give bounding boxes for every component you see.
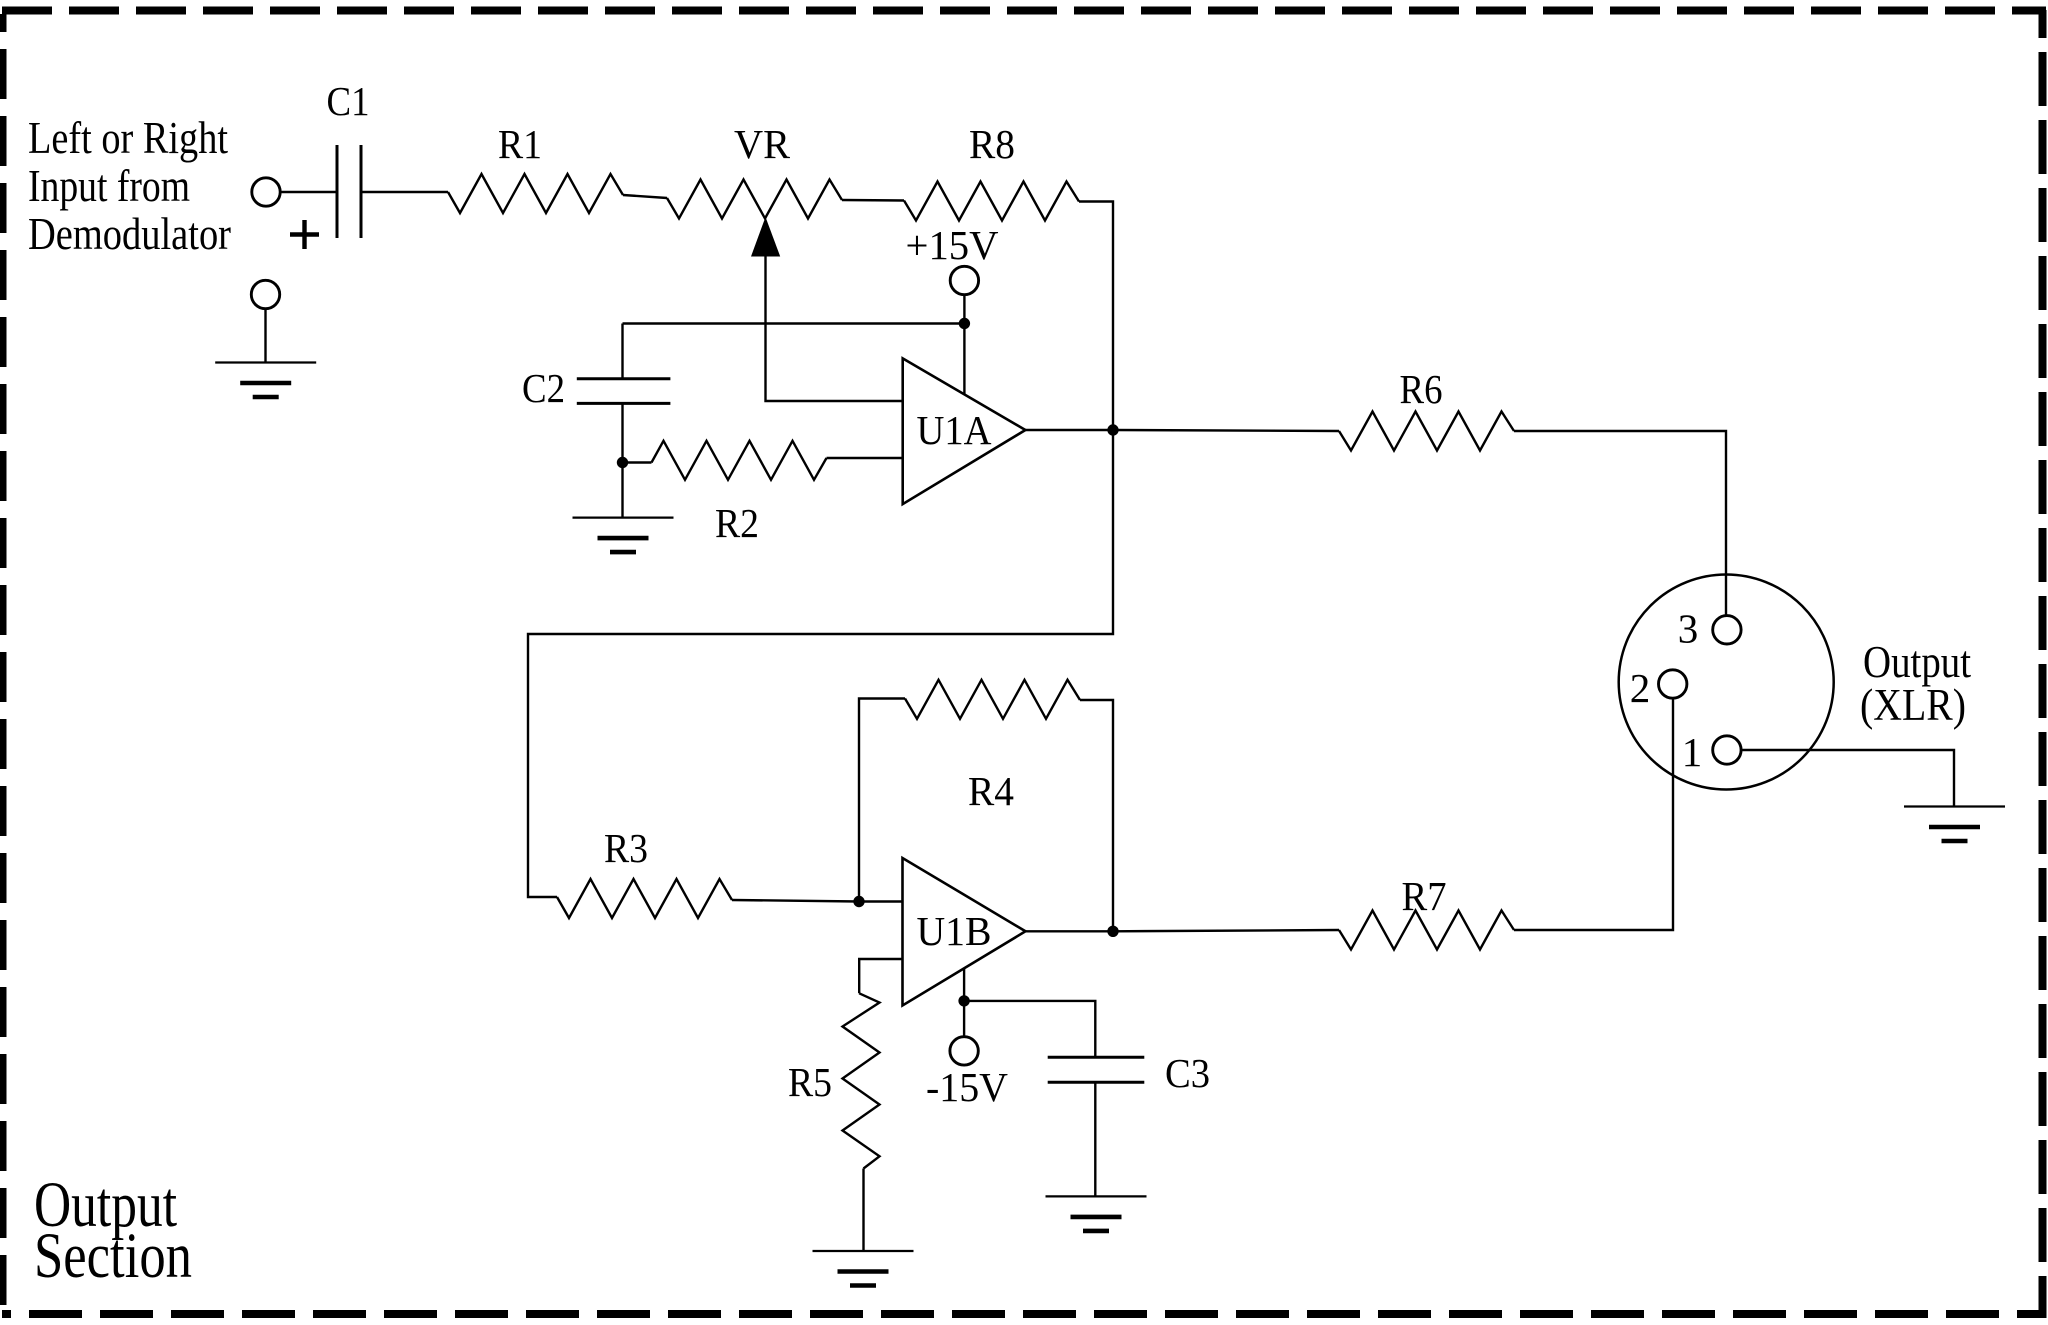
svg-text:3: 3 (1678, 606, 1699, 652)
svg-text:2: 2 (1630, 665, 1651, 711)
wire +15V into U1A (963, 324, 965, 395)
junction (958, 995, 969, 1006)
wire (963, 294, 965, 323)
svg-text:R3: R3 (604, 825, 648, 871)
node U1B inverting input (853, 896, 864, 907)
ground (573, 518, 674, 553)
svg-text:R7: R7 (1402, 873, 1447, 919)
wire U1A output (1025, 429, 1113, 431)
wire (621, 403, 623, 462)
resistor R5 (843, 993, 880, 1168)
wire R2 to U1A inverting input (827, 457, 903, 459)
svg-text:U1A: U1A (917, 407, 992, 453)
svg-text:R1: R1 (498, 121, 542, 167)
op-amp U1B (903, 858, 1026, 1006)
ground (215, 363, 316, 398)
resistor R4 (905, 680, 1080, 719)
wire to C3 (964, 1001, 1095, 1057)
ground (1904, 807, 2005, 842)
wire feedback to R3 (528, 430, 1113, 897)
node U1B output (1107, 926, 1118, 937)
svg-text:+15V: +15V (906, 222, 999, 268)
svg-text:R6: R6 (1400, 366, 1443, 412)
wire R8 to U1A output node (1079, 202, 1113, 431)
junction (959, 318, 970, 329)
ground (813, 1251, 914, 1286)
wire R6 to XLR pin 3 (1514, 431, 1726, 616)
resistor R8 (904, 182, 1079, 221)
power -15V (950, 1037, 978, 1065)
wire +15V rail to C2 (623, 322, 965, 324)
resistor R2 (652, 441, 827, 480)
resistor R1 (448, 174, 623, 213)
node input terminal (252, 178, 280, 206)
wire (623, 461, 652, 463)
svg-text:R2: R2 (715, 500, 759, 546)
svg-text:VR: VR (734, 121, 791, 167)
resistor R7 (1339, 911, 1514, 950)
wire (1113, 930, 1339, 931)
svg-text:C2: C2 (522, 365, 565, 411)
wire U1B power pin (963, 968, 965, 1001)
ground (1046, 1196, 1147, 1231)
op-amp U1A (903, 358, 1026, 504)
wire (621, 463, 623, 518)
wire (361, 191, 448, 193)
power +15V (950, 266, 978, 294)
wire wiper to U1A non-inverting input (766, 257, 903, 402)
node input ground terminal (251, 280, 279, 308)
pin 1 (1713, 736, 1741, 764)
wire (1094, 1082, 1096, 1196)
capacitor C2 (577, 379, 671, 404)
capacitor C1 (290, 145, 361, 249)
resistor R6 (1339, 412, 1514, 451)
wire to R4 (859, 699, 905, 902)
svg-text:Demodulator: Demodulator (28, 208, 231, 259)
svg-text:Section: Section (34, 1220, 192, 1292)
svg-text:Left or Right: Left or Right (28, 112, 228, 163)
wire U1B output (1026, 930, 1114, 932)
wire R7 to XLR pin 2 (1514, 698, 1673, 930)
wire (621, 324, 623, 379)
wire (859, 900, 903, 902)
wire (862, 1169, 864, 1252)
svg-text:-15V: -15V (926, 1064, 1008, 1110)
svg-text:1: 1 (1682, 729, 1703, 775)
wire (963, 1001, 965, 1037)
wire pin 1 to ground (1741, 750, 1954, 807)
resistor R3 (557, 879, 732, 918)
potentiometer VR (667, 180, 842, 257)
svg-text:C1: C1 (327, 78, 370, 124)
pin 2 (1659, 670, 1687, 698)
connector XLR shell (1619, 575, 1834, 790)
wire (623, 195, 667, 198)
node U1A output (1107, 424, 1118, 435)
capacitor C3 (1048, 1057, 1145, 1082)
node C2/R2 junction (617, 457, 628, 468)
wire (1113, 430, 1339, 431)
wire (264, 308, 266, 362)
svg-text:R4: R4 (968, 768, 1014, 814)
wire R4 to U1B output node (1080, 700, 1113, 931)
svg-text:R8: R8 (969, 121, 1015, 167)
wire (280, 191, 337, 193)
svg-text:C3: C3 (1165, 1050, 1210, 1096)
svg-text:U1B: U1B (917, 908, 992, 954)
wire (732, 900, 859, 902)
svg-text:(XLR): (XLR) (1860, 680, 1966, 730)
wire U1B non-inverting input to R5 (859, 959, 902, 993)
pin 3 (1713, 616, 1741, 644)
wire (842, 199, 904, 202)
svg-text:R5: R5 (788, 1059, 832, 1105)
svg-text:Input from: Input from (28, 160, 190, 211)
